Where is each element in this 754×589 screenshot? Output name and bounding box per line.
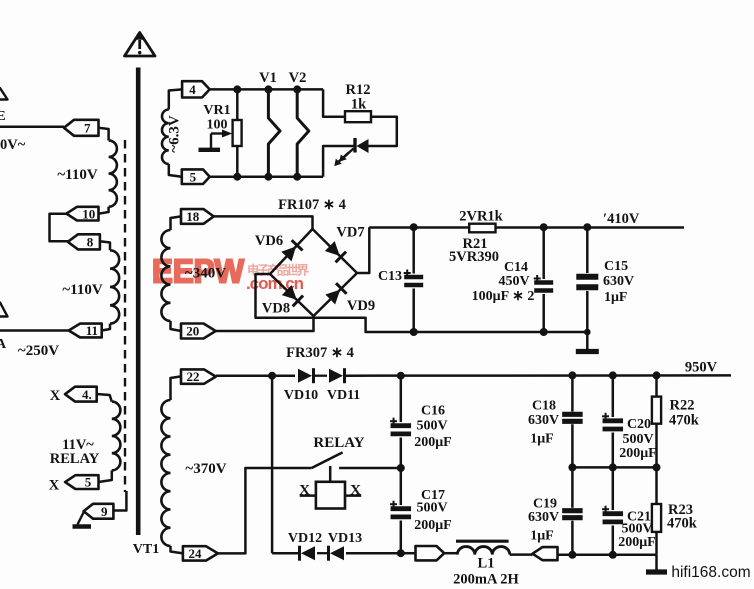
svg-text:VD13: VD13 <box>328 531 362 546</box>
capacitor C15 <box>576 277 598 288</box>
junction mid rail / R22 <box>653 463 661 471</box>
potentiometer VR1 hum balance <box>199 89 242 176</box>
svg-text:C13: C13 <box>378 269 402 284</box>
choke L1 <box>457 547 510 555</box>
wire C17 branch <box>400 468 403 505</box>
capacitor C21 <box>602 506 623 522</box>
wire R23 branch <box>655 467 658 504</box>
svg-text:450V: 450V <box>498 274 529 289</box>
terminal 4 <box>182 81 210 97</box>
terminal 4. relay winding <box>65 387 97 402</box>
junction bottom rail / C19 <box>568 551 576 559</box>
junction 950V rail / C20 <box>609 371 617 379</box>
choke L1 core bar <box>456 540 509 543</box>
wire terminal 22 to VD10 <box>216 374 295 377</box>
wire terminal 8 to primary winding <box>100 241 110 250</box>
svg-text:~250V: ~250V <box>18 343 59 359</box>
wire C21 branch <box>612 467 615 510</box>
wire connector to L1 <box>444 552 457 555</box>
terminal 7 <box>64 120 99 136</box>
svg-text:VT1: VT1 <box>133 542 159 557</box>
resistor 2VR1k (R21) <box>469 224 495 233</box>
wire terminal 11 to mains A <box>0 329 69 332</box>
secondary winding ~6.3V <box>162 110 169 165</box>
junction ground rail / C14 <box>540 328 548 336</box>
svg-text:V2: V2 <box>289 70 307 86</box>
wire terminal 4. to relay winding <box>97 394 112 402</box>
svg-text:0V~: 0V~ <box>0 137 26 153</box>
junction heater top / VR1 <box>233 85 241 93</box>
partial warning triangle at left edge (top) <box>0 88 8 100</box>
svg-text:4.: 4. <box>82 387 92 402</box>
LED indicator <box>334 138 368 166</box>
wire C20 branch <box>612 375 615 417</box>
wire VD13 to C17 bottom <box>346 552 401 555</box>
wire terminal 24 to relay contact <box>218 468 312 553</box>
wire terminal 9 to transformer shield <box>113 491 126 511</box>
wire to L1 connector <box>401 552 416 555</box>
junction 950V rail / C16 <box>397 372 405 380</box>
svg-text:VR1: VR1 <box>203 103 230 118</box>
diode VD13 <box>329 546 345 561</box>
svg-text:470k: 470k <box>669 413 700 429</box>
terminal 11 <box>69 323 102 338</box>
wire 410V rail right part <box>496 226 685 229</box>
wire R22 branch <box>655 375 658 396</box>
diode VD10 <box>298 368 314 383</box>
wire terminal 7 to primary winding <box>99 128 109 141</box>
capacitor C16 <box>390 418 411 434</box>
capacitor C18 <box>562 414 583 421</box>
wire doubler bottom left <box>272 552 299 555</box>
diode VD6 <box>281 240 303 262</box>
wire heater bottom rail <box>210 175 323 178</box>
svg-text:7: 7 <box>84 120 91 135</box>
wire C16 branch <box>400 376 403 422</box>
wire mains E to terminal 7 <box>0 126 64 129</box>
svg-text:22: 22 <box>187 369 200 384</box>
wire bridge positive (right vertex) to 410V rail <box>357 227 369 273</box>
svg-text:200μF: 200μF <box>414 518 452 533</box>
svg-text:4: 4 <box>189 82 196 97</box>
svg-text:18: 18 <box>186 209 200 224</box>
junction 950V rail / C18 <box>568 371 576 379</box>
junction 22 rail / doubler return <box>268 372 276 380</box>
svg-text:RELAY: RELAY <box>50 451 100 467</box>
capacitor C17 <box>390 501 411 517</box>
svg-text:hifi168.com: hifi168.com <box>671 564 750 581</box>
svg-text:500V: 500V <box>416 501 447 516</box>
wire 950V rail <box>345 374 731 377</box>
transformer VT1 core line <box>136 68 141 536</box>
wire VD12 to VD13 <box>317 552 328 554</box>
transformer shield (dashed) <box>124 140 126 492</box>
svg-text:X: X <box>49 478 60 494</box>
svg-text:~340V: ~340V <box>185 266 226 282</box>
svg-text:630V: 630V <box>528 510 559 525</box>
warning triangle (mains hazard) above core <box>125 33 156 57</box>
svg-text:5VR390: 5VR390 <box>449 249 499 265</box>
junction 950V rail / R22 <box>653 371 661 379</box>
diode VD12 <box>300 546 316 561</box>
svg-text:VD9: VD9 <box>347 298 375 314</box>
svg-text:E: E <box>0 109 6 124</box>
svg-text:2VR1k: 2VR1k <box>459 209 503 225</box>
wire 410V rail left part <box>369 226 469 229</box>
wire C19 branch <box>571 467 574 507</box>
svg-text:VD10: VD10 <box>284 388 318 403</box>
secondary winding ~370V <box>161 400 170 546</box>
svg-text:500V: 500V <box>622 432 653 447</box>
svg-text:200μF: 200μF <box>414 435 452 450</box>
svg-text:10: 10 <box>82 206 95 221</box>
relay actuator link <box>329 466 332 482</box>
svg-text:C18: C18 <box>532 399 556 414</box>
svg-text:FR307 ∗ 4: FR307 ∗ 4 <box>286 345 354 361</box>
wire terminal 18 to 340V winding <box>171 216 182 230</box>
junction heater bottom / V2 <box>293 173 301 181</box>
junction 410V rail / C13 <box>410 223 418 231</box>
svg-text:RELAY: RELAY <box>313 435 364 451</box>
diode VD7 <box>324 241 346 263</box>
resistor R23 <box>652 504 661 532</box>
svg-text:20: 20 <box>186 324 199 339</box>
svg-text:C15: C15 <box>604 259 628 274</box>
svg-text:100μF ∗ 2: 100μF ∗ 2 <box>472 289 535 304</box>
junction 410V rail / C15 <box>583 223 591 231</box>
bridge diamond edges <box>270 229 357 274</box>
svg-text:C20: C20 <box>627 417 651 432</box>
diode VD11 <box>329 368 345 383</box>
junction bottom rail / C21 <box>609 551 617 559</box>
capacitor C13 <box>404 270 424 286</box>
wire doubler return vertical <box>271 376 274 554</box>
terminal 22 <box>181 369 216 384</box>
relay coil <box>316 482 345 509</box>
junction mid rail / C18 <box>568 463 576 471</box>
wire C14 branch <box>542 227 545 279</box>
ground at terminal 9 <box>73 512 92 527</box>
svg-text:11: 11 <box>86 323 98 338</box>
capacitor C14 <box>534 275 554 291</box>
svg-text:~110V: ~110V <box>57 167 97 183</box>
wire 340V winding to terminal 20 <box>171 321 182 331</box>
wire terminal 10 to terminal 8 <box>50 214 68 242</box>
junction ground rail / C15 <box>584 329 591 336</box>
svg-text:200μF: 200μF <box>619 446 657 461</box>
junction C17 bottom / L1 <box>397 549 405 557</box>
svg-text:630V: 630V <box>603 274 634 289</box>
svg-text:100: 100 <box>207 118 228 133</box>
svg-text:V1: V1 <box>259 70 277 86</box>
wire terminal 4 to 6.3V winding <box>169 89 182 109</box>
junction C16/C17 midpoint <box>397 464 405 472</box>
svg-text:VD12: VD12 <box>288 531 322 546</box>
svg-text:1μF: 1μF <box>604 290 628 305</box>
wire relay coil lead left <box>300 494 316 497</box>
svg-text:8: 8 <box>87 234 94 249</box>
terminal 9 shield <box>84 504 114 519</box>
wire terminal 22 to 370V winding <box>171 376 182 400</box>
svg-text:950V: 950V <box>685 360 718 376</box>
wire R12 to LED <box>369 117 397 146</box>
wire 370V winding to terminal 24 <box>171 546 183 553</box>
wire relay winding to terminal 5 <box>99 470 112 482</box>
svg-text:1μF: 1μF <box>530 529 554 544</box>
svg-text:A: A <box>0 337 7 352</box>
svg-text:~110V: ~110V <box>62 282 102 298</box>
wire C13 branch <box>412 227 415 273</box>
wire C15 branch <box>586 227 589 273</box>
svg-text:C16: C16 <box>421 404 445 419</box>
junction heater top / V1 <box>264 85 272 93</box>
diode VD8 <box>282 285 304 307</box>
terminal 20 <box>181 324 216 339</box>
wire heater rail to R12 <box>323 89 345 116</box>
connector socket right of L1 <box>533 547 558 560</box>
svg-text:VD7: VD7 <box>336 225 364 241</box>
partial warning triangle at left edge (bottom) <box>0 303 8 317</box>
svg-text:24: 24 <box>188 546 202 561</box>
wire heater top rail <box>210 88 323 91</box>
svg-text:X: X <box>50 388 61 404</box>
connector plug left of L1 <box>416 546 445 560</box>
svg-text:VD6: VD6 <box>255 233 283 249</box>
relay switch blade <box>312 452 343 468</box>
ground symbol main <box>576 332 599 352</box>
wire relay contact to C16/C17 midpoint <box>339 467 401 470</box>
tube heater V2 <box>297 89 309 176</box>
svg-text:500V: 500V <box>416 419 447 434</box>
junction ground rail / C13 <box>410 328 418 336</box>
svg-text:′410V: ′410V <box>603 211 640 227</box>
junction heater bottom / VR1 <box>233 173 241 181</box>
svg-text:470k: 470k <box>667 516 698 532</box>
svg-text:1k: 1k <box>351 97 367 113</box>
svg-text:5: 5 <box>85 475 92 490</box>
svg-text:~370V: ~370V <box>185 461 226 477</box>
svg-text:C14: C14 <box>504 260 528 275</box>
terminal 24 <box>183 546 218 561</box>
capacitor C19 <box>562 511 583 518</box>
wire middle rail <box>572 466 656 469</box>
svg-text:200mA 2H: 200mA 2H <box>453 572 519 588</box>
wire 6.3V winding to terminal 5 <box>169 164 182 177</box>
svg-text:FR107 ∗ 4: FR107 ∗ 4 <box>278 197 346 213</box>
resistor R12 <box>345 111 371 122</box>
relay winding 11V~ <box>112 402 121 471</box>
wire C18 branch <box>571 375 574 411</box>
terminal 5 <box>182 169 210 184</box>
wire winding to terminal 11 <box>102 324 110 331</box>
svg-text:630V: 630V <box>528 413 559 428</box>
wire relay coil lead right <box>345 494 361 497</box>
wire VD10 to VD11 <box>314 375 327 377</box>
terminal 18 <box>181 209 214 224</box>
diode VD9 <box>325 283 347 305</box>
junction mid rail / C20 <box>609 463 617 471</box>
primary winding ~110V (8-11) <box>110 250 119 323</box>
secondary winding ~340V <box>161 230 170 321</box>
capacitor C20 <box>602 413 623 429</box>
svg-text:VD11: VD11 <box>327 388 360 403</box>
junction 410V rail / C14 <box>540 223 548 231</box>
tube heater V1 <box>268 89 280 176</box>
wire terminal 18 to bridge top vertex <box>214 216 313 229</box>
wire L1 to connector <box>510 553 533 556</box>
svg-text:9: 9 <box>101 504 108 519</box>
terminal 10 <box>66 206 98 221</box>
junction heater top / V2 <box>293 85 301 93</box>
resistor R22 <box>652 397 661 424</box>
svg-text:200μF: 200μF <box>618 535 656 550</box>
wire bridge negative (left vertex) to ground rail <box>256 274 588 332</box>
ground symbol 950V filter <box>646 555 667 572</box>
wire terminal 20 to bridge bottom vertex <box>216 316 314 331</box>
svg-text:VD8: VD8 <box>262 301 290 317</box>
primary winding ~110V (7-10) <box>109 140 117 206</box>
svg-text:R22: R22 <box>670 398 695 414</box>
svg-text:1μF: 1μF <box>530 432 554 447</box>
wire winding to terminal 10 <box>99 207 109 214</box>
svg-text:L1: L1 <box>478 556 495 572</box>
terminal 8 <box>68 234 100 249</box>
svg-text:~6.3V: ~6.3V <box>167 115 183 153</box>
terminal 5 relay winding <box>65 475 98 490</box>
svg-text:5: 5 <box>190 169 197 184</box>
junction heater bottom / V1 <box>264 173 272 181</box>
wire bottom rail to ground <box>558 554 657 557</box>
wire LED back to heater bottom rail <box>323 146 355 177</box>
